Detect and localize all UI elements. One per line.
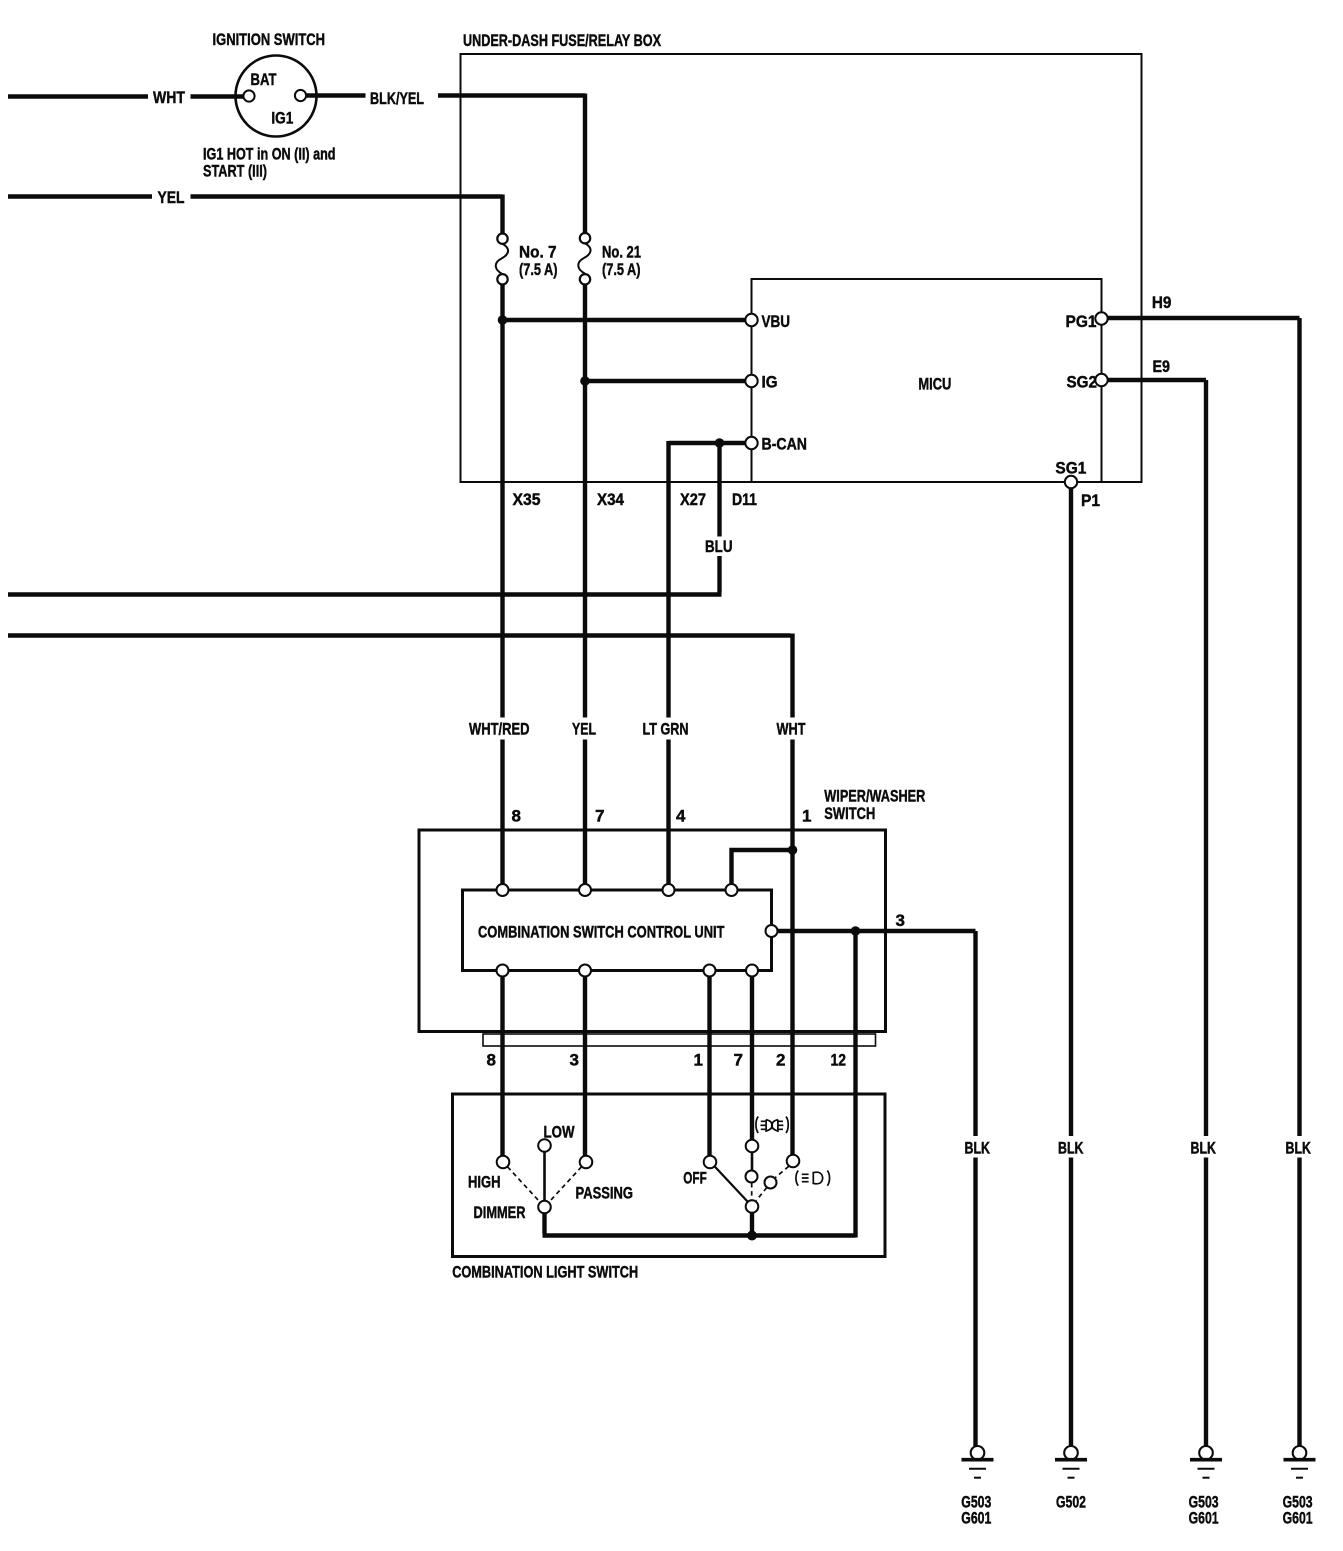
junction fuse No.7 / VBU [498, 315, 508, 325]
MICU pin SG1 [1065, 476, 1077, 488]
svg-text:8: 8 [487, 1051, 496, 1070]
ground G503/G601 for PG1/H9 [1284, 1446, 1316, 1478]
wire 12 from junction down to light switch bus [853, 931, 857, 1236]
svg-text:D11: D11 [732, 490, 757, 509]
control unit pin 7 top [579, 884, 591, 896]
svg-text:BLK: BLK [1286, 1139, 1312, 1158]
wiper/washer switch box [419, 830, 886, 1032]
combination switch control unit box [463, 890, 772, 971]
MICU pin PG1 [1095, 312, 1107, 324]
control unit pin 1 bottom [704, 965, 716, 977]
svg-text:BLK: BLK [1058, 1139, 1084, 1158]
junction WHT / pin 1 branch [788, 845, 798, 855]
control unit pin 7 bottom [746, 965, 758, 977]
fuse No.21 (7.5 A) [578, 233, 590, 284]
wire BLK/YEL from IG1 to fuse No.21 [307, 94, 586, 234]
control unit pin 8 top [497, 884, 509, 896]
svg-text:WHT/RED: WHT/RED [469, 720, 530, 739]
light switch bottom bus wire [543, 1236, 856, 1238]
svg-text:YEL: YEL [158, 188, 185, 207]
wire X35 fuse No.7 down to control unit pin 8 (WHT/RED) [500, 285, 504, 885]
wire X27 down to control unit pin 4 (LT GRN) [666, 441, 670, 885]
combination light switch box [453, 1094, 886, 1257]
svg-text:7: 7 [734, 1051, 743, 1070]
svg-text:SG1: SG1 [1055, 459, 1086, 478]
wire H9 from PG1 to ground G503/G601 (BLK) [1108, 318, 1300, 1446]
svg-text:UNDER-DASH FUSE/RELAY BOX: UNDER-DASH FUSE/RELAY BOX [463, 31, 661, 50]
svg-text:BLK: BLK [965, 1139, 991, 1158]
wire headlight to middle contact [751, 1152, 754, 1170]
wire P1 from SG1 to ground G502 (BLK) [1069, 488, 1073, 1446]
svg-text:No. 21: No. 21 [602, 242, 641, 261]
wire 3 control unit to PASSING contact [583, 977, 587, 1156]
svg-text:1: 1 [694, 1051, 703, 1070]
svg-text:E9: E9 [1153, 357, 1171, 376]
svg-text:X34: X34 [597, 490, 624, 509]
svg-text:YEL: YEL [572, 720, 596, 739]
dashed parking to small contact [775, 1166, 788, 1177]
svg-text:COMBINATION SWITCH CONTROL UNI: COMBINATION SWITCH CONTROL UNIT [478, 923, 725, 942]
dashed blade PASSING-DIMMER [549, 1167, 582, 1203]
control unit pin 8 bottom [497, 965, 509, 977]
wire WHT to ignition switch BAT [8, 94, 243, 98]
svg-text:4: 4 [676, 807, 686, 826]
svg-text:MICU: MICU [918, 375, 951, 394]
dashed middle to common [751, 1183, 753, 1200]
wire WHT long bus to wiper/washer switch [8, 634, 793, 1156]
svg-text:OFF: OFF [683, 1169, 707, 1188]
wire YEL to fuse No.7 [8, 195, 503, 234]
light switch LOW contact [538, 1139, 551, 1152]
junction fuse No.21 / IG [580, 376, 590, 386]
svg-text:PG1: PG1 [1066, 312, 1097, 331]
wire 3 from control unit to ground G503/G601 (BLK) [778, 931, 976, 1446]
svg-text:WIPER/WASHER: WIPER/WASHER [824, 787, 925, 806]
svg-text:WHT: WHT [777, 720, 806, 739]
svg-text:P1: P1 [1081, 491, 1100, 510]
MICU pin B-CAN [745, 437, 757, 449]
wire 8 control unit to HIGH contact [500, 977, 504, 1156]
light switch DIMMER common contact [538, 1201, 551, 1214]
light switch parking contact [787, 1155, 800, 1168]
wire DIMMER to bus [542, 1213, 546, 1233]
svg-text:WHT: WHT [153, 88, 185, 107]
svg-text:IG: IG [762, 373, 778, 392]
svg-text:VBU: VBU [762, 312, 791, 331]
ground G503/G601 for wire 3 [962, 1446, 994, 1478]
MICU pin SG2 [1095, 374, 1107, 386]
svg-text:(7.5 A): (7.5 A) [602, 260, 641, 279]
ignition switch SW1 body [236, 56, 317, 137]
headlight icon (high/low beam) [756, 1117, 788, 1134]
svg-text:No. 7: No. 7 [519, 242, 557, 261]
svg-text:SG2: SG2 [1067, 373, 1098, 392]
dashed blade HIGH-DIMMER [508, 1167, 541, 1203]
svg-text:G601: G601 [961, 1508, 991, 1527]
wire IG from fuse No.21 to MICU [585, 379, 745, 383]
wire E9 from SG2 to ground G503/G601 (BLK) [1108, 380, 1206, 1446]
junction common / bus [747, 1231, 757, 1241]
svg-text:SWITCH: SWITCH [824, 804, 875, 823]
wire 7 control unit to headlight contact [750, 977, 754, 1140]
svg-text:IG1 HOT in ON (II) and: IG1 HOT in ON (II) and [203, 144, 336, 163]
svg-text:12: 12 [831, 1051, 847, 1070]
wire X34 fuse No.21 down to control unit pin 7 (YEL) [583, 285, 587, 885]
svg-text:DIMMER: DIMMER [474, 1203, 526, 1222]
svg-text:G601: G601 [1189, 1508, 1219, 1527]
svg-text:X27: X27 [680, 490, 706, 509]
switch blade OFF to common [715, 1166, 749, 1202]
wire 1 control unit to OFF contact [707, 977, 711, 1156]
svg-text:G502: G502 [1056, 1493, 1086, 1512]
wire D11 down (BLU) then left bus [8, 443, 722, 595]
wire LOW to DIMMER [543, 1152, 546, 1201]
light switch small contact [765, 1177, 777, 1189]
control unit pin 4 top [663, 884, 675, 896]
connector strip below wiper/washer box [483, 1034, 876, 1046]
svg-text:LOW: LOW [544, 1123, 576, 1142]
wire B-CAN left from MICU pin [669, 441, 746, 445]
svg-text:3: 3 [896, 911, 905, 930]
svg-text:2: 2 [776, 1051, 785, 1070]
parking lamp icon [796, 1171, 830, 1186]
svg-text:B-CAN: B-CAN [762, 435, 808, 454]
svg-text:7: 7 [595, 807, 604, 826]
ignition switch pin IG1 [295, 90, 306, 101]
control unit pin 3 right [766, 925, 778, 937]
svg-text:IGNITION SWITCH: IGNITION SWITCH [213, 30, 326, 49]
fuse No.7 (7.5 A) [496, 234, 508, 285]
svg-text:HIGH: HIGH [468, 1173, 501, 1192]
under-dash fuse/relay box [461, 54, 1142, 482]
wire common to bus [750, 1213, 754, 1234]
light switch headlight contact [746, 1140, 759, 1153]
control unit pin 1 top [726, 884, 738, 896]
svg-text:H9: H9 [1152, 293, 1172, 312]
control unit pin 3 bottom [579, 965, 591, 977]
junction wire 3 / pin 12 branch [851, 926, 861, 936]
ignition switch pin BAT [243, 90, 254, 101]
svg-text:8: 8 [512, 807, 521, 826]
svg-text:1: 1 [802, 807, 811, 826]
ground G503/G601 for SG2/E9 [1190, 1446, 1222, 1478]
dashed small contact to common [756, 1188, 767, 1201]
light switch OFF contact [704, 1156, 717, 1169]
svg-text:IG1: IG1 [271, 108, 293, 127]
light switch middle contact [746, 1171, 758, 1183]
wire branch from junction to control unit pin 1 [732, 850, 793, 885]
MICU box U1 [752, 279, 1102, 482]
svg-text:3: 3 [570, 1051, 579, 1070]
svg-text:G601: G601 [1283, 1508, 1313, 1527]
junction B-CAN / D11 [715, 438, 725, 448]
svg-text:BLK: BLK [1191, 1139, 1217, 1158]
svg-text:(7.5 A): (7.5 A) [519, 260, 558, 279]
svg-text:X35: X35 [513, 490, 541, 509]
light switch common contact [746, 1200, 759, 1213]
ground G502 for SG1 [1055, 1446, 1087, 1478]
light switch PASSING contact [580, 1156, 593, 1169]
svg-text:BLU: BLU [705, 537, 733, 556]
MICU pin IG [745, 375, 757, 387]
wire VBU from fuse No.7 to MICU [503, 318, 746, 322]
MICU pin VBU [745, 314, 757, 326]
svg-text:COMBINATION LIGHT SWITCH: COMBINATION LIGHT SWITCH [452, 1263, 638, 1282]
light switch HIGH contact [497, 1156, 510, 1169]
svg-text:BLK/YEL: BLK/YEL [370, 89, 424, 108]
svg-text:LT GRN: LT GRN [643, 720, 689, 739]
svg-text:BAT: BAT [251, 70, 277, 89]
svg-text:PASSING: PASSING [576, 1183, 634, 1202]
svg-text:START (III): START (III) [203, 162, 267, 181]
